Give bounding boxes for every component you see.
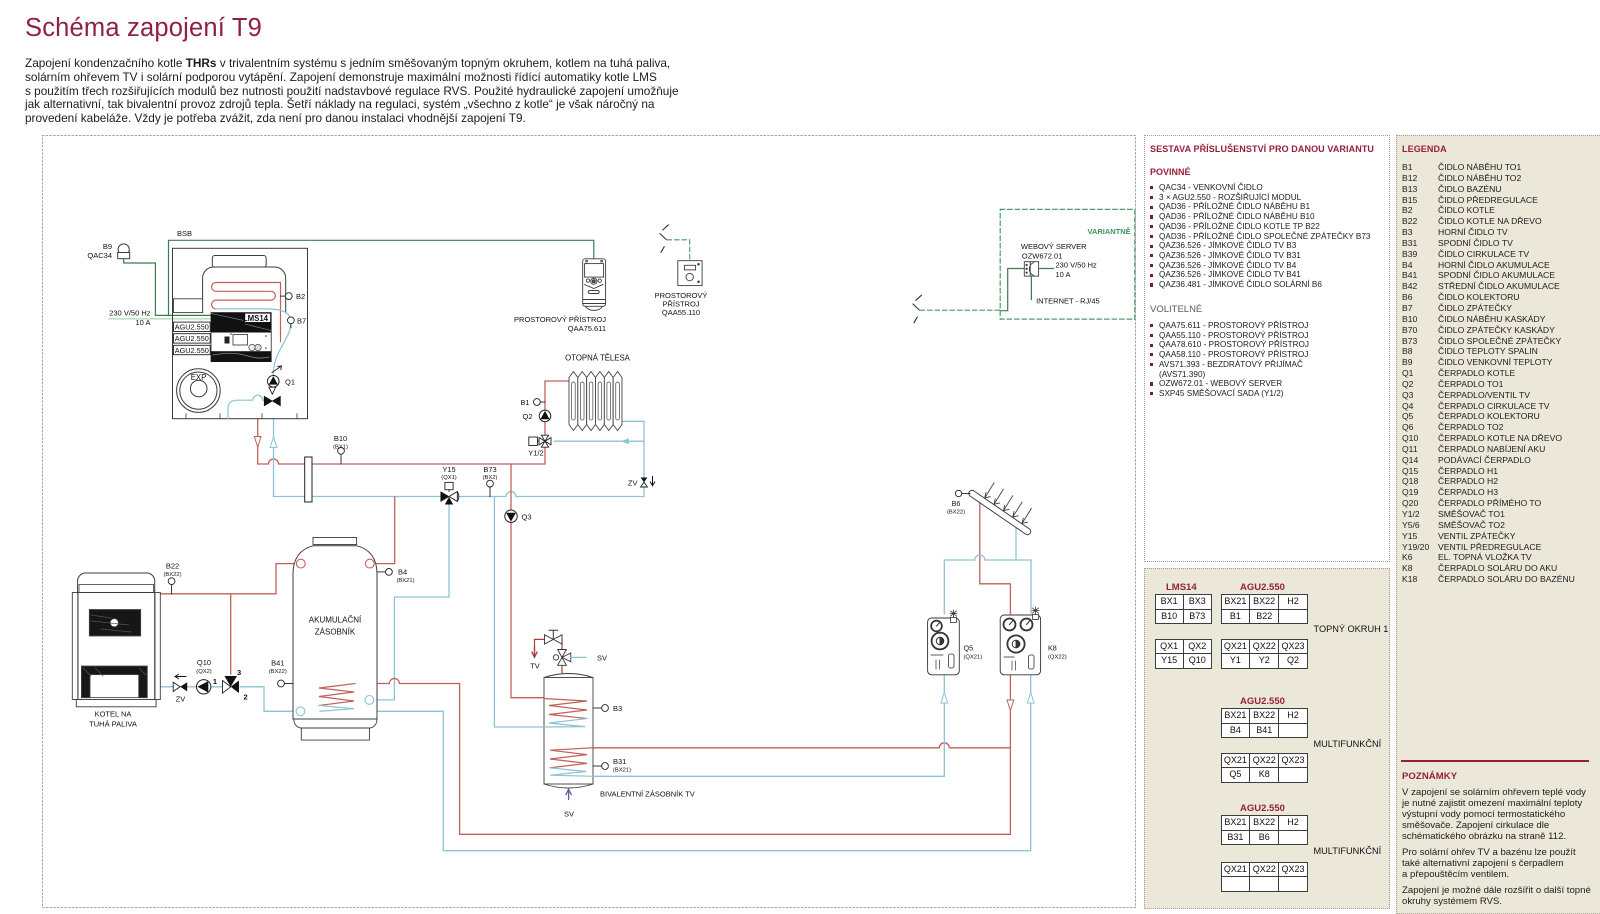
svg-text:B22: B22 bbox=[166, 562, 179, 571]
sensor B41 (BX22) bbox=[278, 680, 293, 687]
svg-text:B7: B7 bbox=[297, 317, 306, 326]
svg-text:B4: B4 bbox=[398, 568, 407, 577]
svg-text:(QX2): (QX2) bbox=[196, 669, 212, 675]
pipe TV circuit Q3 branch (red) bbox=[511, 464, 544, 698]
tank port bottom-left bbox=[296, 707, 305, 716]
module LMS14 bbox=[211, 313, 271, 362]
svg-text:3: 3 bbox=[237, 668, 241, 677]
svg-text:10 A: 10 A bbox=[1056, 270, 1071, 279]
svg-text:ZV: ZV bbox=[628, 478, 638, 487]
svg-text:AKUMULAČNÍ: AKUMULAČNÍ bbox=[309, 616, 362, 625]
sensor B22 (BX22) bbox=[168, 578, 175, 594]
antenna (web server link) bbox=[913, 295, 921, 322]
arrow flow down bbox=[254, 437, 261, 448]
svg-text:B9: B9 bbox=[103, 242, 112, 251]
boiler THRs cabinet bbox=[173, 248, 308, 418]
svg-text:(BX2): (BX2) bbox=[483, 475, 498, 481]
svg-text:LMS14: LMS14 bbox=[243, 314, 269, 323]
accumulator solar coil bbox=[319, 684, 355, 706]
svg-text:Q3: Q3 bbox=[522, 513, 532, 522]
pipe DHW coil supply (red) bbox=[593, 743, 1010, 748]
hydraulic separator bbox=[305, 457, 312, 502]
sensor B31 (BX21) bbox=[593, 763, 608, 770]
radiator OTOPNÁ TĚLESA bbox=[569, 372, 622, 431]
svg-text:QAA55.110: QAA55.110 bbox=[662, 308, 700, 317]
pipe B7 return curve (blue) bbox=[268, 309, 291, 376]
pump Q10 (QX2) bbox=[197, 680, 211, 694]
wire sensor B9 to LMS14 bbox=[124, 259, 212, 316]
svg-text:B1: B1 bbox=[520, 398, 529, 407]
svg-text:B31: B31 bbox=[613, 757, 626, 766]
pipe SV cold water (blue) bbox=[571, 656, 586, 658]
svg-text:(QX21): (QX21) bbox=[964, 655, 983, 661]
svg-text:K8: K8 bbox=[1048, 644, 1057, 653]
boiler diverter valve bbox=[264, 387, 280, 406]
pump Q2 bbox=[539, 410, 551, 422]
sensor B7 bbox=[288, 317, 295, 328]
sensor B73 (BX2) bbox=[487, 480, 494, 496]
pipe return Y15 to ZV riser (blue) bbox=[458, 421, 644, 496]
svg-text:Y15: Y15 bbox=[442, 465, 455, 474]
pump Q3 bbox=[505, 510, 517, 522]
pipe TV outlet (dark red) bbox=[535, 639, 563, 673]
svg-text:WEBOVÝ SERVER: WEBOVÝ SERVER bbox=[1021, 242, 1087, 251]
sensor B4 (BX21) bbox=[378, 569, 392, 576]
pipe radiator supply (red) bbox=[545, 381, 569, 435]
arrow solar return up K8 bbox=[1027, 693, 1034, 704]
svg-text:BSB: BSB bbox=[177, 229, 192, 238]
svg-text:230 V/50 Hz: 230 V/50 Hz bbox=[109, 308, 151, 317]
svg-text:(QX1): (QX1) bbox=[441, 475, 457, 481]
svg-text:VARIANTNĚ: VARIANTNĚ bbox=[1087, 227, 1130, 236]
svg-text:(BX22): (BX22) bbox=[269, 669, 287, 675]
svg-text:AGU2.550: AGU2.550 bbox=[175, 323, 209, 332]
svg-text:1: 1 bbox=[213, 677, 217, 686]
arrow TV bbox=[532, 648, 537, 657]
svg-text:2: 2 bbox=[244, 693, 248, 702]
wire 230V mains supply bbox=[109, 318, 211, 320]
arrow solar feed down bbox=[1007, 700, 1014, 711]
pipe boiler flow main (red) bbox=[258, 419, 545, 464]
svg-text:TUHÁ PALIVA: TUHÁ PALIVA bbox=[89, 720, 137, 729]
pump station K8 (QX22) bbox=[1000, 607, 1040, 675]
room unit QAA55.110 bbox=[678, 261, 702, 286]
svg-text:ZV: ZV bbox=[176, 695, 186, 704]
storage tank AKUMULAČNÍ ZÁSOBNÍK bbox=[293, 538, 377, 741]
svg-text:AGU2.550: AGU2.550 bbox=[175, 334, 209, 343]
svg-text:QAC34: QAC34 bbox=[87, 251, 112, 260]
tap valve TV bbox=[545, 630, 563, 644]
pipe expansion connection (blue) bbox=[228, 395, 267, 419]
svg-text:SV: SV bbox=[597, 653, 607, 662]
svg-text:Q2: Q2 bbox=[522, 412, 532, 421]
DHW lower coil bbox=[550, 748, 593, 768]
mixing valve Y1/2 bbox=[529, 435, 551, 447]
boiler heat exchanger coil bbox=[212, 283, 281, 342]
DHW tank BIVALENTNÍ ZÁSOBNÍK TV bbox=[544, 674, 593, 789]
svg-text:230 V/50 Hz: 230 V/50 Hz bbox=[1056, 261, 1098, 270]
svg-text:B41: B41 bbox=[271, 659, 284, 668]
room unit QAA75.611 bbox=[583, 259, 606, 311]
mixing valve SV bbox=[553, 650, 571, 666]
svg-text:Y1/2: Y1/2 bbox=[528, 449, 543, 458]
antenna (wireless room unit) bbox=[660, 225, 668, 252]
svg-text:Q10: Q10 bbox=[197, 658, 211, 667]
svg-text:OZW672.01: OZW672.01 bbox=[1022, 252, 1062, 261]
pipe DHW coil return (blue) bbox=[494, 497, 544, 727]
arrow radiator return bbox=[621, 438, 629, 444]
svg-text:B3: B3 bbox=[613, 704, 622, 713]
pipe solar collector feed (red) bbox=[460, 503, 1011, 835]
svg-text:(BX22): (BX22) bbox=[947, 510, 965, 516]
wire wireless link to web server bbox=[920, 309, 1000, 311]
svg-text:(BX21): (BX21) bbox=[397, 578, 415, 584]
svg-text:ZÁSOBNÍK: ZÁSOBNÍK bbox=[315, 628, 356, 637]
svg-text:INTERNET - RJ/45: INTERNET - RJ/45 bbox=[1036, 296, 1100, 305]
sensor B10 (BX1) bbox=[338, 447, 345, 464]
svg-text:B10: B10 bbox=[334, 434, 347, 443]
arrow return up bbox=[270, 437, 277, 448]
pipe accumulator solar riser (red) bbox=[355, 679, 460, 835]
svg-text:EXP: EXP bbox=[191, 373, 207, 382]
pipe solar collector return (blue) bbox=[593, 527, 1031, 776]
3-way valve ports 1-2-3 bbox=[223, 676, 240, 693]
svg-text:(QX22): (QX22) bbox=[1048, 655, 1067, 661]
pipe boiler return main (blue) bbox=[274, 419, 441, 497]
sensor B6 (BX22) bbox=[955, 490, 970, 496]
box VARIANTNĚ bbox=[1000, 209, 1135, 319]
svg-text:B73: B73 bbox=[483, 465, 496, 474]
svg-text:TV: TV bbox=[530, 662, 540, 671]
arrow solar return up Q5 bbox=[941, 693, 948, 704]
svg-text:QAA75.611: QAA75.611 bbox=[568, 324, 606, 333]
module AGU2.550 #2 bbox=[174, 334, 211, 343]
svg-text:Q5: Q5 bbox=[964, 644, 974, 653]
svg-text:(BX22): (BX22) bbox=[163, 572, 181, 578]
svg-text:BIVALENTNÍ ZÁSOBNÍK TV: BIVALENTNÍ ZÁSOBNÍK TV bbox=[600, 790, 695, 799]
wire wireless link to QAA55.110 bbox=[667, 240, 690, 261]
svg-text:(BX1): (BX1) bbox=[333, 444, 348, 450]
pipe solid fuel boiler return (blue) bbox=[160, 687, 297, 712]
check valve ZV (boiler) bbox=[173, 674, 187, 691]
svg-text:PROSTOROVÝ PŘÍSTROJ: PROSTOROVÝ PŘÍSTROJ bbox=[514, 315, 606, 324]
pipe accumulator solar return (blue) bbox=[355, 560, 1031, 851]
svg-text:B2: B2 bbox=[296, 292, 305, 301]
module AGU2.550 #1 bbox=[174, 322, 211, 331]
sensor B3 bbox=[593, 705, 608, 712]
svg-text:AGU2.550: AGU2.550 bbox=[175, 346, 209, 355]
valve Y15 (QX1) bbox=[441, 482, 459, 504]
arrow SV inlet bbox=[566, 789, 571, 799]
wire web server connections bbox=[1000, 269, 1053, 311]
svg-text:SV: SV bbox=[564, 810, 574, 819]
svg-text:KOTEL NA: KOTEL NA bbox=[95, 710, 132, 719]
pump Q1 bbox=[268, 366, 282, 387]
pipe solid fuel boiler flow (red) bbox=[160, 564, 297, 674]
sensor B9 QAC34 outdoor bbox=[118, 244, 130, 259]
pipe tank top to return (red) bbox=[374, 497, 395, 564]
pump station Q5 (QX21) bbox=[928, 610, 960, 675]
tank port coil-right bbox=[365, 696, 374, 705]
wire BSB bus bbox=[169, 240, 594, 315]
sensor B2 bbox=[281, 293, 293, 300]
solid fuel boiler KOTEL NA TUHÁ PALIVA bbox=[72, 573, 160, 707]
check valve ZV (radiator) bbox=[641, 477, 655, 488]
svg-text:B6: B6 bbox=[952, 499, 961, 508]
DHW upper coil bbox=[544, 699, 587, 719]
tank port top-right bbox=[365, 559, 374, 568]
solar collector bbox=[972, 483, 1031, 532]
svg-text:OTOPNÁ TĚLESA: OTOPNÁ TĚLESA bbox=[565, 354, 631, 363]
sensor B1 bbox=[534, 399, 546, 406]
svg-text:(BX21): (BX21) bbox=[613, 768, 631, 774]
expansion vessel EXP bbox=[177, 369, 221, 413]
module AGU2.550 #3 bbox=[174, 345, 211, 354]
pipe Y15 branch to tank (blue) bbox=[373, 505, 449, 700]
tank port top-left bbox=[296, 559, 305, 568]
web server OZW672.01 bbox=[1024, 262, 1038, 276]
svg-text:10 A: 10 A bbox=[135, 318, 150, 327]
svg-text:Q1: Q1 bbox=[285, 378, 295, 387]
